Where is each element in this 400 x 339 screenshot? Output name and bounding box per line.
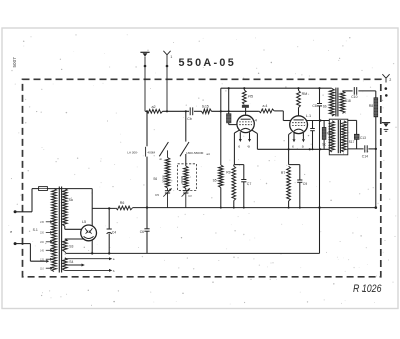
svg-text:220: 220 [40, 232, 45, 235]
svg-text:e: e [10, 230, 12, 234]
svg-text:C8: C8 [312, 104, 317, 108]
svg-text:R6: R6 [120, 201, 125, 205]
svg-text:S18: S18 [345, 99, 351, 103]
svg-text:R5: R5 [248, 95, 253, 99]
svg-text:1: 1 [170, 55, 172, 59]
svg-text:Sb: Sb [323, 104, 327, 108]
svg-text:L.1: L.1 [306, 114, 311, 118]
svg-text:2: 2 [389, 78, 391, 82]
svg-text:S.1: S.1 [33, 228, 38, 232]
svg-text:Sc: Sc [322, 142, 326, 146]
svg-text:S5: S5 [213, 178, 217, 182]
svg-text:e: e [238, 144, 240, 148]
svg-text:S.15: S.15 [202, 105, 209, 109]
svg-text:125: 125 [40, 258, 45, 261]
svg-text:S4: S4 [69, 260, 73, 264]
svg-text:145: 145 [40, 249, 45, 252]
svg-text:R 1026: R 1026 [353, 283, 382, 295]
svg-text:30000: 30000 [162, 175, 166, 183]
svg-text:L5: L5 [82, 220, 86, 224]
svg-text:a4: a4 [206, 152, 210, 156]
svg-text:20000: 20000 [180, 176, 184, 184]
svg-text:a.4: a.4 [263, 104, 268, 108]
svg-text:110: 110 [40, 267, 44, 270]
svg-text:b: b [113, 269, 115, 273]
svg-text:a2: a2 [152, 105, 156, 109]
svg-text:400M: 400M [147, 150, 155, 154]
svg-text:R9: R9 [226, 171, 230, 175]
svg-text:C4: C4 [112, 230, 116, 234]
svg-text:C10: C10 [351, 95, 357, 99]
svg-text:200: 200 [40, 241, 45, 244]
svg-text:C5: C5 [155, 193, 159, 197]
svg-text:245: 245 [40, 221, 45, 224]
svg-text:550A-05: 550A-05 [179, 57, 237, 69]
svg-text:C9: C9 [303, 182, 308, 186]
svg-text:C13: C13 [360, 136, 366, 140]
svg-text:C7: C7 [247, 182, 252, 186]
svg-text:e: e [292, 145, 294, 149]
svg-text:1800-5800M: 1800-5800M [186, 151, 204, 155]
svg-text:Cb: Cb [187, 117, 192, 121]
svg-text:ab: ab [159, 157, 162, 161]
svg-text:a: a [248, 144, 250, 148]
svg-text:C6: C6 [140, 230, 144, 234]
svg-text:S17: S17 [349, 140, 355, 144]
svg-text:Cf: Cf [188, 194, 191, 198]
svg-text:C14: C14 [362, 154, 368, 158]
svg-text:RM: RM [302, 92, 308, 96]
svg-text:a: a [113, 257, 115, 261]
svg-text:a: a [302, 145, 304, 149]
svg-text:R7: R7 [281, 171, 285, 175]
svg-text:5007: 5007 [12, 57, 17, 68]
svg-text:S6: S6 [153, 177, 157, 181]
svg-text:LA 300-: LA 300- [127, 150, 138, 154]
svg-text:S3: S3 [69, 245, 73, 249]
svg-text:R8: R8 [369, 104, 374, 108]
svg-text:L4: L4 [253, 118, 257, 122]
svg-text:Sa: Sa [69, 198, 73, 202]
